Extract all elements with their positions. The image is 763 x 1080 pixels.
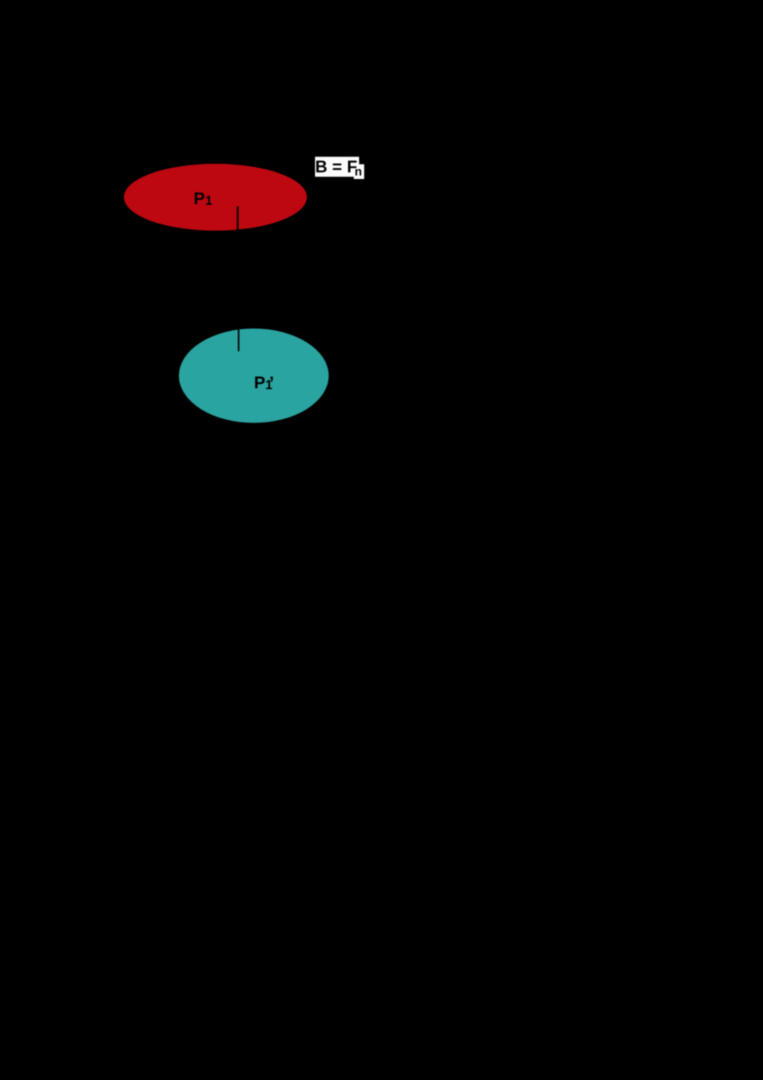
- label P1': [254, 373, 274, 393]
- normal line tick through P1: [237, 206, 239, 230]
- label box B = Fn: [315, 157, 364, 179]
- plane P1 ellipse (red): [124, 164, 307, 231]
- svg-text:’: ’: [269, 373, 274, 393]
- normal line tick through P1': [238, 329, 240, 352]
- svg-text:P: P: [254, 373, 265, 392]
- svg-text:1: 1: [205, 193, 212, 208]
- svg-text:n: n: [355, 165, 362, 179]
- svg-text:P: P: [194, 189, 205, 208]
- plane P1' ellipse (teal): [179, 329, 329, 423]
- label P1: [194, 189, 213, 208]
- svg-text:B = F: B = F: [315, 157, 357, 176]
